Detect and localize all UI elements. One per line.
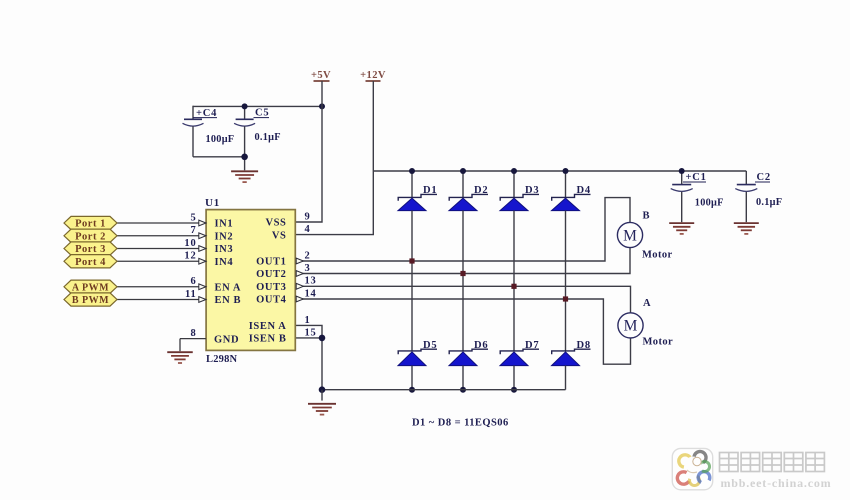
svg-text:IN3: IN3 bbox=[215, 244, 234, 255]
svg-text:12: 12 bbox=[184, 251, 196, 262]
svg-text:VSS: VSS bbox=[265, 218, 286, 229]
svg-text:Port 2: Port 2 bbox=[75, 231, 106, 242]
svg-text:4: 4 bbox=[305, 224, 311, 235]
svg-text:D6: D6 bbox=[474, 340, 488, 351]
svg-text:D2: D2 bbox=[474, 185, 488, 196]
svg-text:EN A: EN A bbox=[215, 282, 242, 293]
svg-text:ISEN A: ISEN A bbox=[249, 321, 287, 332]
svg-text:100μF: 100μF bbox=[206, 134, 235, 145]
svg-text:IN1: IN1 bbox=[215, 219, 234, 230]
svg-text:M: M bbox=[623, 227, 637, 244]
svg-text:D3: D3 bbox=[525, 185, 539, 196]
svg-text:8: 8 bbox=[190, 328, 196, 339]
svg-text:mbb.eet-china.com: mbb.eet-china.com bbox=[721, 476, 832, 490]
svg-text:13: 13 bbox=[305, 276, 317, 287]
svg-text:0.1μF: 0.1μF bbox=[756, 197, 782, 208]
svg-text:9: 9 bbox=[305, 211, 311, 222]
svg-text:OUT4: OUT4 bbox=[256, 295, 287, 306]
svg-text:15: 15 bbox=[305, 327, 317, 338]
svg-text:U1: U1 bbox=[205, 197, 220, 209]
svg-text:1: 1 bbox=[305, 315, 311, 326]
svg-text:7: 7 bbox=[190, 225, 196, 236]
svg-text:D1 ~ D8 = 11EQS06: D1 ~ D8 = 11EQS06 bbox=[412, 418, 509, 429]
svg-text:A PWM: A PWM bbox=[72, 282, 109, 293]
svg-text:ISEN B: ISEN B bbox=[249, 334, 287, 345]
svg-text:Motor: Motor bbox=[642, 249, 673, 260]
svg-text:D8: D8 bbox=[577, 340, 591, 351]
svg-text:EN B: EN B bbox=[215, 295, 242, 306]
svg-text:11: 11 bbox=[185, 289, 197, 300]
svg-text:C2: C2 bbox=[757, 172, 771, 183]
svg-text:VS: VS bbox=[272, 230, 287, 241]
svg-text:B PWM: B PWM bbox=[72, 295, 109, 306]
svg-text:14: 14 bbox=[305, 288, 317, 299]
svg-text:+12V: +12V bbox=[360, 70, 386, 81]
svg-text:D1: D1 bbox=[423, 185, 437, 196]
svg-text:L298N: L298N bbox=[206, 354, 238, 365]
svg-text:M: M bbox=[624, 318, 638, 335]
svg-text:Motor: Motor bbox=[643, 337, 674, 348]
svg-text:OUT3: OUT3 bbox=[256, 282, 286, 293]
svg-text:D4: D4 bbox=[577, 185, 591, 196]
svg-text:3: 3 bbox=[305, 263, 311, 274]
svg-text:Port 3: Port 3 bbox=[75, 244, 106, 255]
svg-text:+5V: +5V bbox=[311, 70, 331, 81]
svg-text:10: 10 bbox=[184, 238, 196, 249]
svg-text:Port 4: Port 4 bbox=[75, 257, 106, 268]
svg-text:IN4: IN4 bbox=[215, 257, 234, 268]
svg-text:IN2: IN2 bbox=[215, 231, 234, 242]
svg-text:5: 5 bbox=[190, 212, 196, 223]
svg-text:D7: D7 bbox=[525, 340, 539, 351]
svg-text:B: B bbox=[643, 211, 651, 222]
svg-text:OUT1: OUT1 bbox=[256, 257, 286, 268]
svg-text:D5: D5 bbox=[423, 340, 437, 351]
svg-text:C5: C5 bbox=[255, 107, 269, 118]
svg-text:100μF: 100μF bbox=[695, 197, 724, 208]
svg-text:6: 6 bbox=[190, 276, 196, 287]
svg-text:Port 1: Port 1 bbox=[75, 219, 106, 230]
svg-text:OUT2: OUT2 bbox=[256, 269, 286, 280]
svg-text:A: A bbox=[643, 298, 651, 309]
svg-text:GND: GND bbox=[214, 334, 239, 345]
svg-text:0.1μF: 0.1μF bbox=[255, 132, 281, 143]
svg-text:2: 2 bbox=[305, 250, 311, 261]
